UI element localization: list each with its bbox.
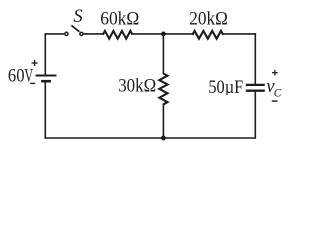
svg-text:S: S [73, 7, 82, 27]
resistor 60kΩ [103, 31, 133, 39]
bottom wire [45, 137, 257, 139]
svg-text:50µF: 50µF [208, 78, 243, 98]
wire right side (top corner to capacitor) [254, 33, 256, 84]
label 50µF [208, 78, 243, 98]
capacitor 50µF [246, 85, 265, 91]
battery + polarity mark [32, 60, 38, 66]
node junction dot bottom [161, 136, 166, 141]
node junction dot top (60k/20k/30k) [161, 32, 166, 37]
wire right side (capacitor to bottom corner) [254, 91, 256, 139]
svg-text:C: C [274, 87, 282, 99]
label 20kΩ [189, 10, 228, 30]
wire switch to 60k resistor [84, 33, 103, 35]
wire middle branch (30k resistor to bottom node) [162, 104, 164, 139]
label switch S [73, 7, 82, 27]
resistor 20kΩ [192, 31, 223, 39]
wire middle branch (top node to 30k resistor) [162, 34, 164, 75]
svg-text:20kΩ: 20kΩ [189, 10, 228, 30]
capacitor + polarity mark [272, 70, 278, 75]
switch S [65, 25, 83, 35]
svg-text:30kΩ: 30kΩ [118, 76, 156, 96]
wire 60k resistor to 20k resistor (through top node) [132, 33, 192, 35]
battery − polarity mark [30, 82, 35, 84]
wire top-left segment [45, 33, 64, 35]
label 60V [8, 66, 34, 86]
wire left side (top corner to battery + plate) [44, 33, 46, 75]
wire left side (battery - plate to bottom corner) [44, 81, 46, 139]
label 60kΩ [100, 10, 139, 30]
label v_C node voltage [266, 77, 281, 99]
label 30kΩ [118, 76, 156, 96]
svg-text:60: 60 [8, 66, 25, 86]
wire 20k resistor to top-right corner [223, 33, 256, 35]
battery 60V [36, 76, 57, 82]
svg-text:60kΩ: 60kΩ [100, 10, 139, 30]
capacitor − polarity mark [272, 100, 278, 102]
resistor 30kΩ [159, 74, 167, 105]
